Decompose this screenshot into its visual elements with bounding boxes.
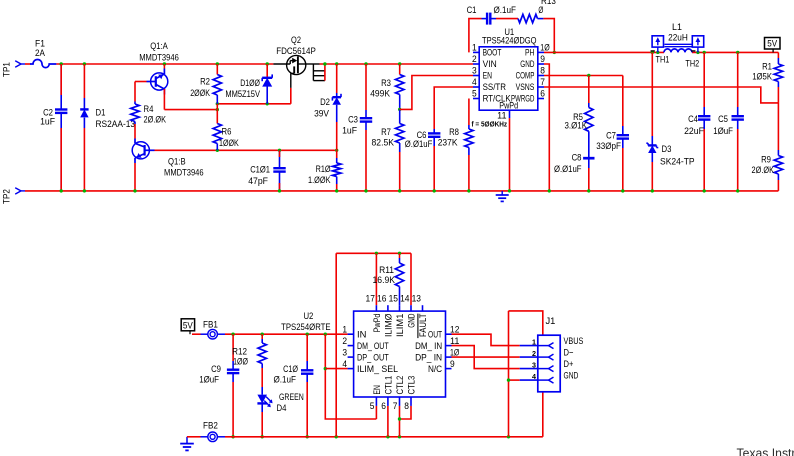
svg-text:CTL1: CTL1 bbox=[383, 376, 393, 395]
capacitor C7 bbox=[596, 76, 629, 191]
resistor R10 bbox=[308, 150, 341, 191]
node TP2 (test point) bbox=[2, 188, 26, 204]
svg-text:J1: J1 bbox=[546, 316, 556, 327]
resistor R3 bbox=[370, 64, 404, 109]
text f=500KHz bbox=[472, 119, 508, 128]
junction bbox=[703, 189, 706, 192]
wire (J1 shell top) bbox=[509, 311, 543, 335]
svg-text:DM_ IN: DM_ IN bbox=[415, 341, 442, 351]
svg-text:FDC5614P: FDC5614P bbox=[276, 46, 316, 57]
node TP1 (test point) bbox=[2, 61, 31, 77]
junction bbox=[261, 435, 264, 438]
svg-text:EN: EN bbox=[483, 71, 492, 81]
junction bbox=[231, 333, 234, 336]
junction bbox=[60, 62, 63, 65]
svg-text:39V: 39V bbox=[314, 108, 329, 119]
transistor Q1:B bbox=[132, 139, 203, 179]
svg-text:R1Ø: R1Ø bbox=[316, 164, 331, 175]
svg-text:4: 4 bbox=[472, 77, 477, 87]
wire (EN) bbox=[400, 76, 473, 110]
svg-text:R13: R13 bbox=[541, 0, 556, 7]
junction bbox=[306, 333, 309, 336]
svg-text:N/C: N/C bbox=[428, 364, 443, 374]
svg-text:D2: D2 bbox=[320, 97, 330, 108]
svg-text:L1: L1 bbox=[672, 22, 682, 33]
svg-text:3: 3 bbox=[472, 66, 477, 76]
diode D1 bbox=[80, 64, 135, 191]
resistor R8 bbox=[438, 99, 473, 191]
svg-text:17: 17 bbox=[366, 294, 375, 304]
svg-text:DP_ OUT: DP_ OUT bbox=[357, 352, 389, 362]
svg-text:TH2: TH2 bbox=[685, 58, 699, 68]
svg-text:OUT: OUT bbox=[428, 329, 442, 339]
svg-text:3: 3 bbox=[342, 347, 347, 357]
svg-text:5: 5 bbox=[370, 401, 375, 411]
wire bbox=[496, 18, 518, 20]
wire bbox=[135, 81, 147, 83]
svg-text:CTL2: CTL2 bbox=[395, 376, 405, 395]
op-amp U2 TPS2540RTE bbox=[281, 294, 459, 411]
svg-text:1Ø: 1Ø bbox=[450, 347, 459, 357]
capacitor C2 bbox=[40, 64, 67, 191]
wire (GND bus) bbox=[336, 252, 411, 254]
svg-text:FB1: FB1 bbox=[203, 320, 218, 331]
net label 5V bbox=[765, 38, 781, 53]
svg-text:Q1:B: Q1:B bbox=[168, 156, 186, 167]
junction bbox=[60, 189, 63, 192]
wire bbox=[134, 163, 136, 191]
svg-text:RS2AA-13: RS2AA-13 bbox=[96, 119, 136, 130]
svg-text:9: 9 bbox=[450, 359, 455, 369]
junction bbox=[651, 51, 654, 54]
svg-text:COMP: COMP bbox=[516, 71, 535, 81]
svg-text:2Ø.ØK: 2Ø.ØK bbox=[752, 165, 775, 176]
svg-text:7: 7 bbox=[393, 401, 398, 411]
svg-text:C1Ø1: C1Ø1 bbox=[250, 165, 270, 176]
svg-text:22uF: 22uF bbox=[684, 126, 704, 137]
capacitor C101 bbox=[248, 150, 286, 191]
wire (OUT) bbox=[452, 334, 520, 345]
svg-text:C1Ø: C1Ø bbox=[283, 364, 298, 375]
svg-text:47pF: 47pF bbox=[248, 176, 268, 187]
junction bbox=[266, 62, 269, 65]
junction bbox=[163, 62, 166, 65]
svg-text:237K: 237K bbox=[438, 137, 458, 148]
junction bbox=[398, 189, 401, 192]
wire (VSNS) bbox=[544, 87, 778, 103]
svg-text:TPS5424ØDGQ: TPS5424ØDGQ bbox=[482, 35, 537, 46]
svg-text:1ØuF: 1ØuF bbox=[713, 126, 733, 137]
svg-text:Ø: Ø bbox=[538, 5, 543, 16]
wire (J1 shell bottom) bbox=[542, 392, 544, 437]
resistor R5 bbox=[0, 0, 593, 132]
svg-text:ILIM_ SEL: ILIM_ SEL bbox=[357, 364, 398, 374]
svg-text:14: 14 bbox=[400, 294, 409, 304]
wire (J1 gnd riser) bbox=[508, 311, 510, 437]
junction bbox=[266, 102, 269, 105]
junction bbox=[587, 74, 590, 77]
wire bbox=[163, 64, 165, 69]
capacitor C10 bbox=[274, 334, 314, 437]
wire bbox=[692, 51, 778, 53]
svg-text:DM_ OUT: DM_ OUT bbox=[357, 341, 389, 351]
junction bbox=[651, 189, 654, 192]
junction bbox=[133, 189, 136, 192]
junction bbox=[467, 189, 470, 192]
svg-text:Ø.1uF: Ø.1uF bbox=[494, 5, 517, 16]
svg-text:5V: 5V bbox=[183, 321, 193, 332]
wire (gate) bbox=[290, 73, 292, 103]
svg-text:R2: R2 bbox=[200, 77, 210, 88]
svg-text:IN: IN bbox=[357, 329, 366, 339]
svg-text:9: 9 bbox=[540, 54, 545, 64]
svg-text:499K: 499K bbox=[370, 88, 390, 99]
svg-text:C7: C7 bbox=[606, 131, 616, 142]
wire bbox=[375, 253, 377, 305]
svg-text:MMDT3946: MMDT3946 bbox=[164, 168, 204, 179]
svg-text:2Ø.ØK: 2Ø.ØK bbox=[144, 114, 167, 125]
junction bbox=[696, 51, 699, 54]
wire bbox=[469, 19, 482, 53]
wire (CTL1 pin6) bbox=[387, 406, 389, 437]
junction bbox=[216, 108, 219, 111]
resistor R7 bbox=[372, 109, 404, 190]
junction bbox=[587, 189, 590, 192]
junction bbox=[83, 62, 86, 65]
resistor R4 bbox=[131, 102, 167, 126]
wire (GND pin9) bbox=[544, 64, 549, 191]
svg-text:MM5Z15V: MM5Z15V bbox=[225, 89, 260, 100]
junction bbox=[278, 189, 281, 192]
junction bbox=[216, 149, 219, 152]
resistor R9 bbox=[752, 103, 783, 191]
junction bbox=[335, 149, 338, 152]
svg-text:FB2: FB2 bbox=[203, 421, 218, 432]
wire (CTL3 pin8) bbox=[400, 406, 412, 419]
svg-text:1ØuF: 1ØuF bbox=[199, 375, 219, 386]
junction bbox=[364, 189, 367, 192]
wire (ILIM_SEL) bbox=[325, 368, 347, 370]
svg-text:6: 6 bbox=[540, 89, 545, 99]
svg-text:Q2: Q2 bbox=[291, 35, 301, 46]
svg-text:12: 12 bbox=[450, 324, 459, 334]
svg-text:D4: D4 bbox=[277, 403, 287, 414]
inductor L1 bbox=[651, 22, 696, 52]
junction bbox=[364, 62, 367, 65]
schottky diode D3 bbox=[646, 52, 694, 191]
wire (drain pins) bbox=[306, 64, 325, 81]
junction bbox=[433, 189, 436, 192]
net label 5V (output) bbox=[181, 319, 194, 334]
resistor R2 bbox=[190, 64, 221, 104]
svg-text:16: 16 bbox=[377, 294, 386, 304]
wire bbox=[410, 253, 412, 305]
junction bbox=[278, 149, 281, 152]
svg-text:TP2: TP2 bbox=[2, 189, 13, 204]
svg-text:6: 6 bbox=[381, 401, 386, 411]
ground bbox=[496, 191, 509, 202]
wire bbox=[164, 109, 217, 111]
wire bbox=[56, 63, 273, 65]
svg-text:R7: R7 bbox=[381, 127, 391, 138]
wire (GND riser) bbox=[335, 253, 337, 436]
svg-text:Texas Instr: Texas Instr bbox=[737, 445, 794, 456]
svg-text:82.5K: 82.5K bbox=[372, 137, 395, 148]
svg-text:D3: D3 bbox=[662, 144, 672, 155]
svg-text:15: 15 bbox=[389, 294, 398, 304]
wire (DP_IN) bbox=[452, 356, 520, 358]
junction bbox=[398, 62, 401, 65]
svg-text:7: 7 bbox=[540, 77, 545, 87]
zener diode D2 bbox=[0, 0, 341, 150]
svg-text:1uF: 1uF bbox=[40, 117, 55, 128]
svg-text:SK24-TP: SK24-TP bbox=[660, 156, 695, 167]
svg-text:f = 5ØØKHz: f = 5ØØKHz bbox=[472, 119, 508, 128]
junction bbox=[261, 333, 264, 336]
svg-text:PwPd: PwPd bbox=[372, 314, 382, 333]
svg-text:EN: EN bbox=[372, 385, 382, 394]
wire bbox=[225, 436, 543, 438]
junction bbox=[231, 435, 234, 438]
svg-text:33ØpF: 33ØpF bbox=[596, 141, 621, 152]
junction bbox=[656, 51, 659, 54]
svg-text:GND: GND bbox=[520, 59, 534, 69]
svg-text:11: 11 bbox=[497, 111, 506, 121]
wire bbox=[217, 103, 290, 105]
junction bbox=[736, 51, 739, 54]
thermistor TH1 bbox=[652, 36, 669, 65]
connector J1 bbox=[520, 316, 584, 392]
ferrite bead FB2 bbox=[187, 421, 225, 442]
svg-text:1: 1 bbox=[342, 324, 347, 334]
svg-text:R6: R6 bbox=[222, 126, 232, 137]
junction bbox=[507, 435, 510, 438]
svg-text:16.9K: 16.9K bbox=[373, 275, 396, 286]
junction bbox=[323, 62, 326, 65]
capacitor C8 bbox=[554, 131, 595, 191]
capacitor C3 bbox=[342, 64, 372, 191]
junction bbox=[507, 378, 510, 381]
resistor R13 bbox=[518, 0, 556, 23]
svg-text:Ø.Ø1uF: Ø.Ø1uF bbox=[405, 139, 433, 150]
svg-text:ILIM1: ILIM1 bbox=[395, 314, 405, 337]
junction bbox=[335, 435, 338, 438]
junction bbox=[335, 189, 338, 192]
wire (pin11 to gnd) bbox=[509, 118, 511, 191]
wire (DM_IN) bbox=[452, 346, 520, 369]
svg-text:D−: D− bbox=[564, 347, 574, 358]
wire bbox=[25, 190, 778, 192]
svg-text:C1: C1 bbox=[467, 5, 477, 16]
svg-text:1uF: 1uF bbox=[342, 125, 357, 136]
capacitor C4 bbox=[684, 52, 710, 191]
svg-text:PwPd: PwPd bbox=[499, 101, 518, 111]
junction bbox=[703, 51, 706, 54]
svg-text:3: 3 bbox=[532, 360, 536, 369]
svg-text:FAULT: FAULT bbox=[418, 313, 428, 337]
svg-text:Ø.Ø1uF: Ø.Ø1uF bbox=[554, 164, 582, 175]
svg-text:TPS254ØRTE: TPS254ØRTE bbox=[281, 322, 331, 333]
svg-text:GREEN: GREEN bbox=[279, 392, 304, 403]
svg-text:MMDT3946: MMDT3946 bbox=[139, 52, 179, 63]
junction bbox=[553, 51, 556, 54]
svg-text:VIN: VIN bbox=[483, 59, 497, 69]
junction bbox=[324, 367, 327, 370]
svg-text:R9: R9 bbox=[761, 155, 771, 166]
svg-text:5V: 5V bbox=[767, 39, 777, 50]
wire bbox=[163, 89, 165, 110]
wire bbox=[320, 63, 474, 65]
svg-text:GND: GND bbox=[564, 370, 579, 381]
wire bbox=[225, 333, 348, 335]
wire (J1 pin4) bbox=[509, 379, 520, 381]
zener diode D100 bbox=[225, 64, 272, 104]
svg-text:C8: C8 bbox=[572, 153, 582, 164]
thermistor TH2 bbox=[685, 36, 703, 69]
wire (COMP) bbox=[544, 75, 623, 77]
junction bbox=[375, 252, 378, 255]
capacitor C5 bbox=[713, 52, 744, 191]
svg-text:D1: D1 bbox=[96, 108, 106, 119]
svg-text:2A: 2A bbox=[35, 48, 45, 59]
junction bbox=[83, 189, 86, 192]
svg-text:CTL3: CTL3 bbox=[406, 376, 416, 395]
logo text bbox=[737, 445, 794, 456]
svg-text:DP_ IN: DP_ IN bbox=[415, 352, 442, 362]
junction bbox=[736, 189, 739, 192]
svg-text:22uH: 22uH bbox=[668, 33, 688, 44]
LED D4 bbox=[257, 387, 303, 437]
svg-text:BOOT: BOOT bbox=[483, 48, 502, 58]
svg-text:5: 5 bbox=[472, 89, 477, 99]
wire (EN pin5) bbox=[375, 406, 377, 419]
svg-text:1: 1 bbox=[472, 43, 477, 53]
capacitor C9 bbox=[199, 334, 239, 437]
svg-text:Ø.1uF: Ø.1uF bbox=[274, 375, 297, 386]
svg-text:C9: C9 bbox=[211, 364, 221, 375]
junction bbox=[398, 435, 401, 438]
transistor Q2 (P-FET) bbox=[273, 35, 315, 75]
svg-text:C3: C3 bbox=[348, 115, 358, 126]
resistor R12 bbox=[232, 334, 266, 387]
wire bbox=[543, 19, 554, 53]
svg-text:8: 8 bbox=[404, 401, 409, 411]
junction bbox=[324, 333, 327, 336]
ground bbox=[180, 437, 194, 451]
junction bbox=[335, 62, 338, 65]
junction bbox=[398, 417, 401, 420]
svg-text:1Ø: 1Ø bbox=[540, 43, 549, 53]
resistor R11 bbox=[373, 253, 404, 305]
svg-text:TH1: TH1 bbox=[656, 54, 670, 64]
svg-text:GND: GND bbox=[406, 313, 416, 327]
op-amp U1 TPS54240DGQ bbox=[472, 27, 550, 121]
resistor R1 bbox=[752, 52, 782, 103]
junction bbox=[398, 108, 401, 111]
svg-text:PH: PH bbox=[525, 48, 534, 58]
svg-text:U2: U2 bbox=[303, 311, 313, 322]
wire bbox=[155, 149, 337, 151]
svg-text:1ØØK: 1ØØK bbox=[219, 138, 239, 149]
svg-text:1ØØ: 1ØØ bbox=[233, 357, 248, 368]
svg-text:C5: C5 bbox=[718, 114, 728, 125]
fuse F1 bbox=[30, 38, 56, 67]
svg-text:3.Ø1K: 3.Ø1K bbox=[565, 121, 588, 132]
junction bbox=[508, 189, 511, 192]
svg-text:1Ø5K: 1Ø5K bbox=[752, 72, 772, 83]
svg-text:8: 8 bbox=[540, 66, 545, 76]
ferrite bead FB1 bbox=[192, 320, 225, 339]
svg-text:C4: C4 bbox=[688, 114, 698, 125]
capacitor C6 bbox=[405, 129, 441, 191]
svg-text:D+: D+ bbox=[564, 359, 574, 370]
svg-text:D1ØØ: D1ØØ bbox=[240, 78, 260, 89]
junction bbox=[216, 102, 219, 105]
wire bbox=[134, 124, 136, 139]
junction bbox=[548, 189, 551, 192]
transistor Q1:A bbox=[139, 41, 179, 95]
junction bbox=[621, 189, 624, 192]
svg-text:SS/TR: SS/TR bbox=[483, 82, 507, 92]
svg-text:R11: R11 bbox=[379, 265, 394, 276]
svg-text:2: 2 bbox=[342, 336, 347, 346]
junction bbox=[386, 435, 389, 438]
svg-text:2: 2 bbox=[532, 349, 536, 358]
svg-text:R3: R3 bbox=[381, 78, 391, 89]
wire (SS/TR) bbox=[434, 87, 473, 129]
svg-text:13: 13 bbox=[412, 294, 421, 304]
svg-text:1.ØØK: 1.ØØK bbox=[308, 175, 331, 186]
wire bbox=[134, 82, 136, 102]
junction bbox=[306, 435, 309, 438]
svg-text:11: 11 bbox=[450, 336, 459, 346]
svg-text:TP1: TP1 bbox=[2, 62, 13, 77]
svg-text:VBUS: VBUS bbox=[564, 336, 584, 347]
svg-text:4: 4 bbox=[342, 359, 347, 369]
svg-text:ILIMØ: ILIMØ bbox=[383, 314, 393, 337]
svg-text:Q1:A: Q1:A bbox=[150, 41, 168, 52]
svg-text:2: 2 bbox=[472, 54, 477, 64]
wire (CTL2 pin7) bbox=[399, 406, 401, 437]
wire (EN/IN riser) bbox=[325, 334, 376, 419]
capacitor C1 bbox=[467, 5, 517, 24]
svg-text:VSNS: VSNS bbox=[516, 82, 535, 92]
wire bbox=[544, 51, 664, 53]
svg-text:2ØØK: 2ØØK bbox=[190, 88, 210, 99]
junction bbox=[398, 252, 401, 255]
resistor R6 bbox=[213, 104, 239, 151]
junction bbox=[216, 62, 219, 65]
